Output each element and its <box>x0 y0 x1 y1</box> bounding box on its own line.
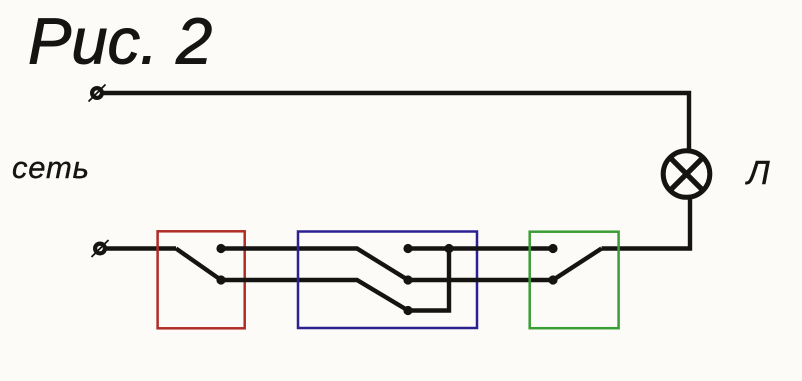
svg-text:Л: Л <box>745 154 770 191</box>
switch S3 box (green) <box>530 232 619 329</box>
wire S1 top contact to S2 middle contact <box>221 249 408 281</box>
switch S1 box (red) <box>158 231 245 328</box>
wire top mains to lamp <box>103 93 689 150</box>
switch S2 middle contact <box>403 275 412 284</box>
switch S1 bottom contact <box>216 275 225 284</box>
terminal X2 (bottom mains terminal) <box>92 240 109 257</box>
wire terminal X2 to switch S1 lever <box>106 246 176 250</box>
svg-text:сеть: сеть <box>12 150 90 185</box>
switch S2 bottom contact <box>403 306 412 315</box>
switch S2 top contact <box>403 244 412 253</box>
wire S1 bottom contact to S2 bottom contact <box>221 280 408 311</box>
switch S3 lever <box>553 249 602 281</box>
wire S2 top contact to S3 top contact <box>408 246 553 250</box>
lamp Л <box>663 151 710 198</box>
wire lamp bottom to switch S3 output <box>602 198 691 249</box>
switch S1 lever <box>176 249 221 281</box>
svg-text:Рис. 2: Рис. 2 <box>28 5 212 78</box>
terminal X1 (top mains terminal) <box>89 85 106 102</box>
wire S2 middle contact to S3 bottom contact <box>408 278 553 282</box>
switch S2 box (blue) <box>298 232 477 329</box>
node junction on S2 top wire <box>444 244 453 253</box>
switch S3 top contact <box>548 244 557 253</box>
switch S3 bottom contact <box>548 275 557 284</box>
wire S2 jumper top node to bottom contact <box>408 249 449 311</box>
switch S1 top contact <box>216 244 225 253</box>
